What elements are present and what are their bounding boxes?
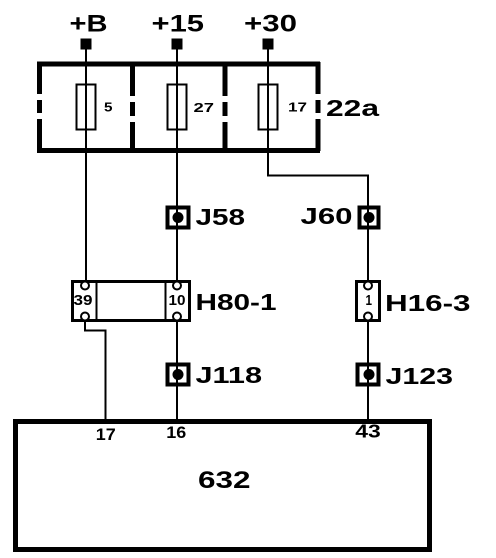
svg-text:17: 17	[288, 100, 307, 115]
svg-text:J60: J60	[301, 203, 353, 229]
svg-text:J118: J118	[196, 362, 263, 388]
svg-text:22a: 22a	[326, 95, 379, 121]
svg-text:+30: +30	[244, 11, 297, 38]
svg-text:27: 27	[194, 100, 215, 115]
svg-text:43: 43	[355, 422, 381, 442]
svg-text:5: 5	[104, 100, 113, 115]
svg-text:H80-1: H80-1	[196, 289, 277, 315]
svg-text:16: 16	[166, 423, 186, 442]
svg-text:632: 632	[198, 467, 251, 494]
svg-text:J58: J58	[196, 204, 246, 230]
svg-text:17: 17	[96, 425, 116, 444]
svg-text:+15: +15	[152, 11, 205, 38]
svg-text:+B: +B	[70, 11, 108, 38]
svg-text:39: 39	[74, 292, 93, 309]
svg-text:H16-3: H16-3	[385, 290, 471, 316]
svg-text:J123: J123	[386, 363, 454, 389]
svg-text:10: 10	[169, 292, 186, 309]
svg-text:1: 1	[366, 292, 373, 309]
